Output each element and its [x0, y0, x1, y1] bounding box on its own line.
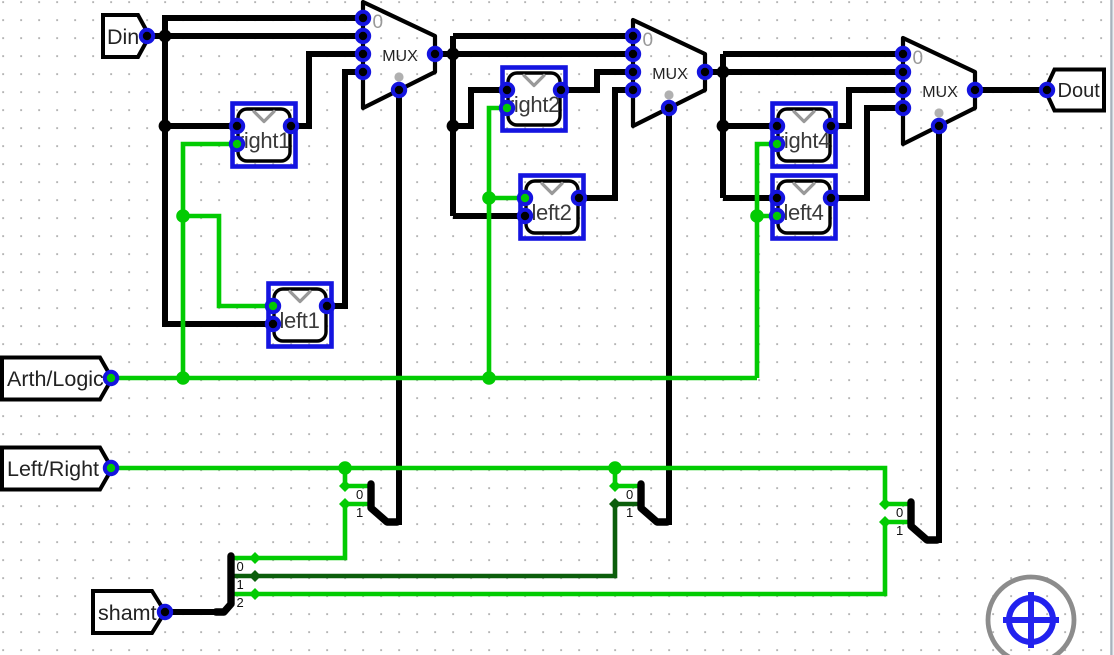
right4 west pin 1 [771, 138, 783, 150]
wire y36 to MUX U2 in0 [453, 33, 633, 39]
wire left1 out to MUX U1 in3 [327, 72, 363, 306]
pin Din output [141, 30, 153, 42]
wire splitter S1 arm0 to Left/Right net [345, 468, 371, 486]
input pin Arth/Logic [2, 358, 112, 400]
svg-text:0: 0 [373, 12, 384, 33]
wire right1 out to MUX U1 in2 [291, 54, 363, 126]
mux U2 input pin 2 [627, 66, 639, 78]
subcircuit left2 body [521, 176, 584, 239]
junction MUX U1 out net [447, 48, 460, 61]
subcircuit left4 body [773, 176, 836, 239]
left4 west pin 1 [771, 210, 783, 222]
wire splitter S3 arm1 to shamt bit2 [229, 522, 911, 594]
pin shamt output [159, 606, 171, 618]
right1 west pin 0 [231, 120, 243, 132]
input pin shamt [93, 591, 165, 633]
wire left2 out to MUX U2 in3 [579, 90, 633, 198]
right4 east pin [825, 120, 837, 132]
svg-text:MUX: MUX [382, 48, 418, 65]
op-amp style mux mux U3 body [903, 38, 975, 144]
wire Din bus: down-left column x165, top row y18 to MUX U1 in0 [165, 18, 363, 324]
svg-text:Left/Right: Left/Right [7, 457, 99, 481]
svg-text:left4: left4 [783, 200, 823, 225]
mux U1 output pin [429, 48, 441, 60]
subcircuit right4 body [773, 104, 836, 167]
right1 west pin 1 [231, 138, 243, 150]
subcircuit right1 body [233, 104, 296, 167]
svg-text:0: 0 [356, 487, 363, 502]
svg-text:1: 1 [896, 523, 903, 538]
wire y72 to MUX U3 in1 [723, 69, 903, 75]
svg-text:0: 0 [896, 505, 903, 520]
left2 west pin 1 [519, 210, 531, 222]
subcircuit left1 body [269, 284, 332, 347]
svg-text:2: 2 [237, 595, 244, 610]
mux U3 input pin 2 [897, 84, 909, 96]
splitter S2 arm0 tip [609, 480, 621, 492]
mux U3 select pin [933, 120, 945, 132]
left2 west pin 0 [519, 192, 531, 204]
splitter S3 (MUX U3 select 2-bit) [911, 502, 937, 540]
wire y54 to MUX U3 in0 [723, 51, 903, 57]
splitter S4 arm0 tip [249, 552, 261, 564]
mux U1 input pin 3 [357, 66, 369, 78]
wire MUX U3 select down to splitter S3 [928, 126, 939, 540]
svg-text:0: 0 [626, 487, 633, 502]
svg-text:Arth/Logic: Arth/Logic [7, 367, 104, 391]
svg-text:1: 1 [626, 505, 633, 520]
splitter S3 arm1 tip [879, 516, 891, 528]
mux U2 input pin 0 [627, 30, 639, 42]
junction green x757 y216 [750, 209, 764, 223]
svg-text:left1: left1 [279, 308, 319, 333]
wire MUX U3 out to Dout [975, 87, 1044, 93]
junction Left/Right net x345 [338, 461, 352, 475]
junction green x183 y216 [176, 209, 190, 223]
splitter S4 arm2 tip [249, 588, 261, 600]
svg-text:right2: right2 [507, 92, 560, 117]
wire MUX U2 out to junction [705, 69, 723, 75]
splitter S1 (MUX U1 select 2-bit) [371, 484, 397, 522]
wire right1 ctrl to Arth/Logic column x183 [183, 144, 237, 378]
wire right4 out to MUX U3 in2 [831, 90, 903, 126]
wire shamt to splitter S4 [165, 609, 219, 615]
wire MUX U1 select down to splitter S1 [388, 90, 399, 522]
op-amp style mux mux U1 body [363, 2, 435, 108]
mux U3 output pin [969, 84, 981, 96]
left1 west pin 1 [267, 318, 279, 330]
splitter S3 arm0 tip [879, 498, 891, 510]
mux U3 input pin 0 [897, 48, 909, 60]
wire junction x165 to right1 in [165, 123, 237, 129]
wire y36 junction to MUX U1 in1 [165, 33, 363, 39]
op-amp style mux mux U2 body [633, 20, 705, 126]
mux U2 select pin [663, 102, 675, 114]
junction x453 y126 [447, 120, 460, 133]
wire to left2 in1 [453, 213, 525, 219]
output pin Dout [1045, 70, 1104, 111]
wire left4 out to MUX U3 in3 [831, 108, 903, 198]
wire junction to right4 in [723, 123, 777, 129]
left1 east pin [321, 300, 333, 312]
mux U1 input pin 1 [357, 30, 369, 42]
svg-text:Din: Din [107, 25, 139, 49]
wire splitter S3 arm0 stub [885, 502, 911, 507]
junction Arth/Logic net x183 [176, 371, 190, 385]
pin Left/Right output [105, 462, 117, 474]
wire Din to junction [147, 33, 165, 39]
input pin Left/Right [2, 448, 112, 490]
wire MUX U2 select down to splitter S2 [658, 108, 669, 522]
pin Arth/Logic output [105, 372, 117, 384]
junction Arth/Logic net x489 [482, 371, 496, 385]
input pin Din [103, 15, 150, 57]
wire Arth/Logic net y378 [111, 376, 757, 381]
wire to left4 in0 [723, 195, 777, 201]
svg-text:1: 1 [237, 577, 244, 592]
mux U3 input pin 1 [897, 66, 909, 78]
right2 west pin 0 [501, 84, 513, 96]
junction Left/Right net x615 [608, 461, 622, 475]
svg-text:0: 0 [237, 559, 244, 574]
mux U1 select pin [393, 84, 405, 96]
svg-text:shamt: shamt [98, 601, 157, 625]
left2 east pin [573, 192, 585, 204]
splitter S4 arm1 tip [249, 570, 261, 582]
svg-text:left2: left2 [531, 200, 571, 225]
wire node x183 to left1 ctrl [183, 216, 273, 306]
svg-text:1: 1 [356, 505, 363, 520]
right1 east pin [285, 120, 297, 132]
splitter S1 arm1 tip [339, 498, 351, 510]
junction MUX U2 out net [717, 66, 730, 79]
mux U2 input pin 1 [627, 48, 639, 60]
wire column x453 [450, 36, 456, 216]
junction x723 y126 [717, 120, 730, 133]
subcircuit right2 body [503, 68, 566, 131]
pin Dout input [1041, 84, 1053, 96]
canvas right edge [1110, 0, 1114, 655]
svg-text:MUX: MUX [652, 66, 688, 83]
wire right2 ctrl column x489 [489, 108, 507, 378]
mux U3 enable dot [934, 108, 943, 117]
svg-text:0: 0 [643, 30, 654, 51]
wire right4 ctrl column x757 [757, 144, 777, 378]
left4 east pin [825, 192, 837, 204]
junction green x489 y198 [482, 191, 496, 205]
wire column x723 [720, 54, 726, 198]
wire splitter S2 arm0 to Left/Right net [615, 468, 641, 486]
left4 west pin 0 [771, 192, 783, 204]
splitter S1 arm0 tip [339, 480, 351, 492]
svg-text:MUX: MUX [922, 84, 958, 101]
svg-text:0: 0 [913, 48, 924, 69]
wire node to left4 ctrl [757, 214, 777, 219]
mux U2 enable dot [664, 90, 673, 99]
left1 west pin 0 [267, 300, 279, 312]
wire splitter S2 arm1 to shamt bit1 (low) [229, 504, 641, 576]
wire junction to right2 in [453, 90, 507, 126]
mux U2 input pin 3 [627, 84, 639, 96]
mux U1 enable dot [394, 72, 403, 81]
right2 west pin 1 [501, 102, 513, 114]
mux U1 input pin 0 [357, 12, 369, 24]
wire Left/Right net y468 [111, 468, 885, 504]
mux U1 input pin 2 [357, 48, 369, 60]
junction x165 y126 [159, 120, 172, 133]
wire y54 to MUX U2 in1 [453, 51, 633, 57]
mux U3 input pin 3 [897, 102, 909, 114]
junction Din net [159, 30, 172, 43]
right4 west pin 0 [771, 120, 783, 132]
wire MUX U1 out to junction [435, 51, 453, 57]
wire right2 out to MUX U2 in2 [561, 72, 633, 90]
splitter S2 (MUX U2 select 2-bit) [641, 484, 667, 522]
svg-text:right1: right1 [237, 128, 290, 153]
wire splitter S1 arm1 to shamt bit0 [229, 504, 371, 558]
wire node to left2 ctrl [489, 196, 525, 201]
right2 east pin [555, 84, 567, 96]
circuit anchor symbol [988, 577, 1074, 655]
splitter S4 (shamt 3-bit fanout) [216, 556, 231, 612]
svg-text:right4: right4 [777, 128, 830, 153]
mux U2 output pin [699, 66, 711, 78]
svg-text:Dout: Dout [1058, 80, 1101, 102]
splitter S2 arm1 tip [609, 498, 621, 510]
